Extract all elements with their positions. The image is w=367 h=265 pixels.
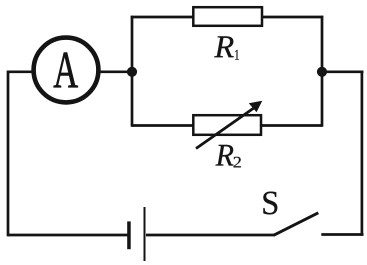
label S bbox=[263, 192, 277, 215]
wire: right junction to right side bbox=[322, 70, 364, 73]
resistor R1 bbox=[193, 7, 262, 26]
label R1 subscript 1 bbox=[235, 50, 239, 60]
wire: R2 to right branch bbox=[261, 124, 323, 127]
wire: bottom left to battery bbox=[7, 234, 127, 237]
battery cell: long thin positive plate bbox=[144, 207, 146, 261]
ammeter letter A bbox=[54, 53, 78, 88]
wire: left vertical side bbox=[7, 71, 10, 237]
node: left junction bbox=[127, 67, 137, 77]
wire: ammeter left lead bbox=[8, 70, 32, 73]
label R2 subscript 2 bbox=[234, 157, 241, 168]
label R1 letter R bbox=[214, 36, 233, 57]
wire: left to R2 bbox=[132, 124, 194, 127]
rheostat arrow shaft bbox=[196, 107, 256, 149]
wire: top wire to R1 bbox=[131, 16, 194, 19]
wire: ammeter right lead bbox=[100, 70, 133, 73]
wire: R1 to right branch bbox=[262, 16, 323, 19]
wire: right branch vertical bbox=[321, 16, 324, 127]
label R2 letter R bbox=[215, 145, 233, 166]
battery cell: short thick negative plate bbox=[127, 221, 131, 249]
wire: left branch vertical bbox=[131, 16, 134, 127]
ammeter A1 circle bbox=[34, 38, 99, 103]
node: right junction bbox=[317, 67, 327, 77]
wire: right vertical side bbox=[361, 71, 364, 236]
rheostat R2 (variable resistor) bbox=[193, 115, 261, 135]
wire: battery to switch bbox=[146, 234, 275, 237]
wire: bottom right to switch contact bbox=[321, 233, 363, 236]
rheostat arrowhead bbox=[249, 101, 262, 112]
switch S blade bbox=[274, 213, 319, 235]
